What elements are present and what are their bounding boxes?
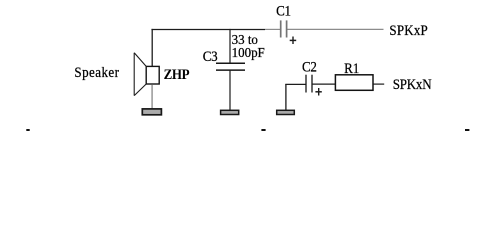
svg-text:C2: C2 bbox=[302, 60, 317, 76]
svg-text:C3: C3 bbox=[203, 49, 218, 65]
svg-text:Speaker: Speaker bbox=[74, 65, 119, 81]
svg-text:C1: C1 bbox=[276, 4, 291, 20]
svg-text:SPKxN: SPKxN bbox=[393, 77, 432, 93]
svg-text:R1: R1 bbox=[344, 62, 359, 78]
svg-text:ZHP: ZHP bbox=[164, 67, 191, 83]
svg-text:100pF: 100pF bbox=[232, 45, 265, 60]
svg-text:SPKxP: SPKxP bbox=[389, 23, 428, 39]
